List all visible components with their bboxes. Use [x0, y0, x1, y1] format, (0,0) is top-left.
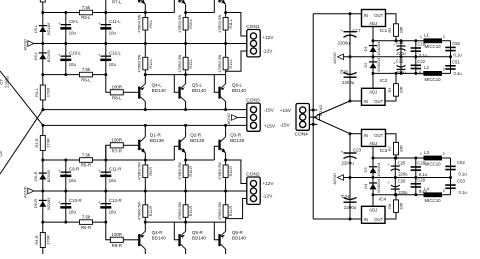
wire output rail 2: [373, 194, 451, 196]
wire IC2 OUT to resistor: [385, 73, 396, 101]
zener diode D6-L BZX85: [39, 52, 47, 53]
svg-text:BD139: BD139: [150, 138, 164, 143]
svg-text:Q6-L: Q6-L: [232, 83, 243, 88]
svg-text:AGND: AGND: [226, 113, 231, 125]
svg-text:C51: C51: [452, 59, 460, 64]
wire rail B L: [43, 74, 106, 76]
svg-text:R8-R: R8-R: [112, 243, 122, 248]
resistor R12-R 470R/0.5W: [144, 191, 146, 222]
capacitor C10-R 10u: [65, 191, 67, 222]
svg-text:CON2: CON2: [246, 171, 260, 177]
resistor R4-R 170R: [40, 233, 45, 248]
capacitor C20 2200u: [349, 57, 351, 101]
svg-text:BD140: BD140: [232, 235, 246, 240]
svg-text:IN: IN: [364, 217, 368, 222]
svg-text:2: 2: [443, 152, 445, 156]
diode D2 1N4004: [372, 57, 374, 74]
wire Q6-R base: [214, 222, 218, 240]
inductor L1 MICC10: [424, 38, 443, 43]
capacitor C24 2200u: [349, 178, 351, 220]
svg-text:Q5-R: Q5-R: [192, 230, 204, 235]
capacitor C29 0.1u: [415, 178, 417, 195]
svg-text:C20: C20: [340, 70, 349, 75]
svg-text:R5: R5: [388, 28, 392, 33]
svg-text:7.5k: 7.5k: [82, 215, 91, 220]
svg-text:AGND: AGND: [332, 173, 337, 185]
transistor Q4-R BD140: [144, 222, 146, 231]
svg-text:C7: C7: [0, 79, 4, 85]
svg-text:BD139: BD139: [190, 138, 204, 143]
svg-text:MICC10: MICC10: [425, 77, 442, 82]
transistor Q6-L BD140: [225, 75, 227, 84]
svg-text:OUT: OUT: [374, 217, 383, 222]
wire CON2 pin1: [226, 160, 247, 184]
wire Q6-L base: [214, 75, 218, 93]
svg-text:D5-R: D5-R: [33, 172, 38, 181]
transistor Q3-L BD139 (cut): [218, 0, 220, 2]
wire output column: [450, 158, 452, 195]
capacitor C25 220u: [394, 158, 396, 178]
svg-text:0.1u: 0.1u: [454, 52, 463, 57]
wire output rail 1 L3: [373, 157, 451, 159]
resistor R9-L 470R/0.5W: [144, 13, 146, 44]
svg-text:C22: C22: [417, 59, 425, 64]
resistor R3-R 170R: [40, 136, 45, 151]
resistor R8-L 100R: [106, 75, 111, 93]
svg-text:C9-R: C9-R: [69, 167, 79, 172]
svg-text:2200u: 2200u: [342, 160, 355, 165]
connector CON4: [296, 104, 309, 131]
svg-text:470R/0.5W: 470R/0.5W: [138, 54, 142, 73]
capacitor C52 0.1u: [445, 166, 455, 168]
svg-text:Q5-L: Q5-L: [192, 83, 203, 88]
svg-text:170R: 170R: [45, 138, 50, 148]
svg-text:470R/0.5W: 470R/0.5W: [178, 201, 182, 220]
voltage regulator IC1: [362, 10, 386, 27]
svg-text:470R/0.5W: 470R/0.5W: [178, 14, 182, 33]
svg-text:D6-L: D6-L: [33, 51, 38, 60]
svg-text:AGND: AGND: [22, 39, 27, 51]
wire emitter rail L: [145, 74, 225, 76]
transistor Q3-R BD139: [218, 140, 220, 150]
svg-text:R11-L: R11-L: [229, 19, 233, 29]
wire zener column L: [42, 0, 44, 110]
svg-text:C11-R: C11-R: [109, 167, 121, 172]
resistor R5-L 7.5k: [80, 10, 93, 15]
svg-text:BD139: BD139: [230, 138, 244, 143]
voltage regulator IC3: [362, 129, 386, 146]
capacitor C18 220u: [400, 41, 402, 57]
wire CON1 pin3: [226, 51, 247, 71]
svg-text:1: 1: [420, 35, 422, 39]
svg-text:BD140: BD140: [152, 235, 166, 240]
svg-text:D5-L: D5-L: [33, 24, 38, 33]
svg-text:R6-L: R6-L: [81, 77, 91, 82]
svg-text:CON3: CON3: [246, 98, 260, 104]
resistor R13-R 470R/0.5W: [185, 191, 187, 222]
svg-text:R4: R4: [388, 88, 392, 93]
svg-text:1: 1: [420, 189, 422, 193]
svg-text:100R: 100R: [112, 232, 123, 237]
capacitor C10-L 10u: [65, 44, 67, 75]
svg-text:MICC10: MICC10: [425, 161, 442, 166]
svg-text:R13-L: R13-L: [189, 59, 193, 69]
svg-text:100R: 100R: [112, 85, 123, 90]
svg-text:1: 1: [420, 67, 422, 71]
svg-text:R7-R: R7-R: [112, 148, 122, 153]
diode D4 1N4004: [372, 178, 374, 195]
wire Q5-R base: [174, 222, 178, 240]
inductor L4 MICC10: [424, 192, 443, 197]
wire output rail 1 L1: [373, 40, 451, 42]
wire raw rail to IC3: [350, 133, 362, 135]
wire CON2 pin3: [226, 199, 247, 219]
svg-text:ADJ: ADJ: [369, 21, 377, 26]
voltage regulator IC2: [362, 88, 386, 105]
svg-text:R7-L: R7-L: [112, 0, 122, 5]
svg-text:BZX85: BZX85: [46, 49, 51, 62]
wire raw supply vertical: [312, 14, 314, 219]
svg-text:10u: 10u: [109, 178, 117, 183]
svg-text:-15V: -15V: [264, 107, 275, 113]
svg-text:10u: 10u: [69, 210, 77, 215]
wire IC3 ADJ: [372, 146, 374, 158]
svg-text:2: 2: [443, 35, 445, 39]
svg-text:R3-R: R3-R: [34, 138, 39, 147]
wire CON4 pins: [309, 109, 317, 111]
svg-text:R9-L: R9-L: [149, 20, 153, 28]
svg-text:IC2: IC2: [380, 78, 388, 83]
svg-text:7.5k: 7.5k: [82, 153, 91, 158]
wire raw rail to IC2: [350, 100, 362, 102]
svg-text:Q3-R: Q3-R: [230, 133, 242, 138]
svg-text:C29: C29: [417, 177, 425, 182]
svg-text:R6-R: R6-R: [81, 225, 91, 230]
svg-text:170R: 170R: [45, 235, 50, 245]
wire CON1 pin1: [226, 13, 247, 37]
svg-text:D2: D2: [363, 62, 368, 68]
svg-text:C52: C52: [457, 160, 465, 165]
svg-text:MICC10: MICC10: [425, 44, 442, 49]
svg-text:470R/0.5W: 470R/0.5W: [138, 14, 142, 33]
wire base jumper line R: [43, 159, 175, 161]
svg-text:470R/0.5W: 470R/0.5W: [218, 162, 222, 181]
transistor Q1-L BD139 (cut): [138, 0, 140, 2]
svg-text:10u: 10u: [69, 31, 77, 36]
svg-text:2: 2: [443, 189, 445, 193]
svg-text:R9-R: R9-R: [149, 167, 153, 176]
svg-text:D1: D1: [363, 45, 368, 51]
wire IC1 OUT to resistor: [386, 14, 397, 41]
svg-text:C12-R: C12-R: [109, 198, 122, 203]
svg-text:-15V: -15V: [280, 122, 291, 128]
wire base jumper line L: [43, 12, 175, 14]
svg-text:10u: 10u: [109, 62, 117, 67]
svg-text:BZX85: BZX85: [46, 169, 51, 182]
svg-text:R12-R: R12-R: [149, 205, 153, 216]
svg-text:R5-L: R5-L: [81, 15, 91, 20]
wire supply rail 1: [43, 109, 247, 111]
svg-text:10u: 10u: [109, 210, 117, 215]
transistor Q4-L BD140: [144, 75, 146, 84]
svg-text:ADJ: ADJ: [369, 141, 377, 146]
wire zener column R: [42, 125, 44, 254]
svg-text:ADJ: ADJ: [369, 90, 377, 95]
svg-text:R11-R: R11-R: [229, 166, 233, 177]
ground AGND at CON3: [232, 115, 238, 121]
wire diagonal to IC2 IN: [317, 101, 350, 115]
ground AGND at rail A L: [28, 41, 34, 47]
svg-text:BD140: BD140: [232, 88, 246, 93]
svg-text:BD140: BD140: [152, 88, 166, 93]
svg-text:220u: 220u: [398, 171, 408, 176]
svg-text:OUT: OUT: [374, 133, 383, 138]
svg-text:C18: C18: [396, 40, 404, 45]
svg-text:R8-L: R8-L: [112, 95, 122, 100]
transistor Q2-L BD139 (cut): [178, 0, 180, 2]
svg-text:0.1u: 0.1u: [459, 190, 468, 195]
svg-text:+12V: +12V: [262, 35, 274, 41]
wire IC4 OUT to resistor: [385, 195, 396, 219]
capacitor C11-L 10u: [105, 0, 107, 44]
wire diagonal feed 2: [0, 110, 43, 174]
svg-text:ADJ: ADJ: [369, 208, 377, 213]
wire raw rail to IC4: [313, 218, 361, 220]
svg-text:C8: C8: [0, 151, 3, 157]
svg-text:R4-R: R4-R: [34, 235, 39, 244]
wire Q5-L base: [174, 75, 178, 93]
svg-text:7.5k: 7.5k: [82, 5, 91, 10]
wire IC1 ADJ: [372, 27, 374, 41]
svg-text:R10-L: R10-L: [189, 19, 193, 29]
wire output rail 2: [373, 72, 451, 74]
svg-text:33R: 33R: [400, 86, 404, 93]
resistor R8 33R: [394, 200, 399, 213]
svg-text:R12-L: R12-L: [149, 59, 153, 69]
svg-text:CON4: CON4: [295, 132, 309, 138]
resistor R7-R 100R: [106, 145, 111, 160]
resistor R9-R 470R/0.5W: [144, 160, 146, 191]
resistor R8-R 100R: [106, 222, 111, 240]
resistor R5-R 7.5k: [80, 158, 93, 163]
transistor Q5-R BD140: [185, 222, 187, 231]
svg-text:10u: 10u: [109, 31, 117, 36]
svg-text:L2: L2: [424, 65, 429, 70]
capacitor C12-R 10u: [105, 191, 107, 222]
svg-text:R4-L: R4-L: [34, 87, 39, 96]
capacitor C28 0.1u: [415, 158, 417, 178]
wire AGND rail L: [34, 43, 247, 45]
svg-text:1N4004: 1N4004: [376, 57, 381, 72]
svg-text:+12V: +12V: [262, 181, 274, 187]
ground AGND rail: [344, 177, 451, 179]
svg-text:470R/0.5W: 470R/0.5W: [178, 162, 182, 181]
svg-text:470R/0.5W: 470R/0.5W: [138, 201, 142, 220]
resistor R11-R 470R/0.5W: [225, 160, 227, 191]
capacitor C26 220u: [394, 178, 396, 195]
connector CON1: [247, 30, 260, 57]
svg-text:C50: C50: [452, 41, 460, 46]
svg-text:33R: 33R: [400, 26, 404, 33]
ground AGND rail: [344, 56, 451, 58]
svg-text:OUT: OUT: [374, 13, 383, 18]
connector CON3: [247, 103, 260, 131]
svg-text:BD140: BD140: [192, 235, 206, 240]
svg-text:2200u: 2200u: [338, 41, 351, 46]
wire rail B R: [43, 221, 106, 223]
svg-text:1N4004: 1N4004: [376, 178, 381, 193]
svg-text:C26: C26: [398, 178, 406, 183]
svg-text:R8: R8: [388, 204, 392, 209]
transistor Q2-R BD139: [178, 140, 180, 150]
capacitor C9-R 10u: [65, 160, 67, 191]
svg-text:C17: C17: [353, 28, 362, 33]
diode D3 1N4004: [372, 158, 374, 178]
resistor R14-L 470R/0.5W: [225, 44, 227, 75]
wire raw rail to IC1: [313, 13, 361, 15]
transistor Q1-R BD139: [138, 140, 140, 150]
capacitor C17 2200u: [349, 14, 351, 57]
svg-text:C21: C21: [396, 59, 404, 64]
resistor R3-L (cut off at top): [40, 0, 45, 2]
svg-text:C12-L: C12-L: [109, 51, 122, 56]
svg-text:C24: C24: [342, 194, 351, 199]
svg-text:10u: 10u: [69, 178, 77, 183]
capacitor C11-R 10u: [105, 145, 107, 191]
svg-text:1N4004: 1N4004: [376, 41, 381, 56]
resistor R4-L 170R: [40, 85, 45, 100]
capacitor C19 0.1u: [415, 41, 417, 57]
svg-text:IC1: IC1: [380, 28, 388, 33]
resistor R10-L 470R/0.5W: [185, 13, 187, 44]
resistor R7 33R: [394, 142, 399, 155]
capacitor C21 220u: [400, 57, 402, 74]
svg-text:470R/0.5W: 470R/0.5W: [218, 201, 222, 220]
transistor Q6-R BD140: [225, 222, 227, 231]
svg-text:IN: IN: [364, 133, 368, 138]
svg-text:-12V: -12V: [262, 48, 273, 54]
svg-text:BD140: BD140: [192, 88, 206, 93]
resistor R14-R 470R/0.5W: [225, 191, 227, 222]
svg-text:L3: L3: [424, 150, 429, 155]
svg-text:L4: L4: [424, 187, 429, 192]
ground AGND at rail A R: [28, 188, 34, 194]
svg-text:IC3: IC3: [380, 148, 388, 153]
capacitor C53 0.1u: [445, 184, 455, 186]
svg-text:L1: L1: [424, 33, 429, 38]
svg-text:Q6-R: Q6-R: [232, 230, 244, 235]
capacitor C12-L 10u: [105, 44, 107, 75]
svg-text:C11-L: C11-L: [109, 19, 121, 24]
svg-text:470R/0.5W: 470R/0.5W: [218, 14, 222, 33]
svg-text:R5-R: R5-R: [81, 163, 91, 168]
svg-text:1N4004: 1N4004: [376, 162, 381, 177]
svg-text:100R: 100R: [112, 138, 123, 143]
svg-text:D3: D3: [363, 167, 368, 173]
resistor R12-L 470R/0.5W: [144, 44, 146, 75]
zener diode D6-R BZX85: [39, 200, 47, 201]
resistor R10-R 470R/0.5W: [185, 160, 187, 191]
svg-text:C10-L: C10-L: [69, 51, 82, 56]
svg-text:C25: C25: [398, 160, 406, 165]
svg-text:Q4-L: Q4-L: [152, 83, 163, 88]
svg-text:7.5k: 7.5k: [82, 67, 91, 72]
svg-text:Q4-R: Q4-R: [152, 230, 164, 235]
svg-text:BZX85: BZX85: [46, 197, 51, 210]
capacitor C50 0.1u: [445, 47, 455, 49]
svg-text:0.1u: 0.1u: [419, 172, 428, 177]
svg-text:D6-R: D6-R: [33, 199, 38, 208]
ground AGND at CON4: [314, 114, 320, 120]
svg-text:CON1: CON1: [246, 24, 260, 30]
svg-text:C10-R: C10-R: [69, 198, 82, 203]
svg-text:+15V: +15V: [264, 123, 276, 129]
svg-text:IC4: IC4: [379, 196, 387, 201]
svg-text:2: 2: [443, 67, 445, 71]
resistor R4 33R: [394, 84, 399, 97]
svg-text:470R/0.5W: 470R/0.5W: [178, 54, 182, 73]
wire IC3 OUT to resistor: [386, 134, 397, 158]
capacitor C51 0.1u: [445, 65, 455, 67]
svg-text:33R: 33R: [400, 202, 404, 209]
resistor R13-L 470R/0.5W: [185, 44, 187, 75]
svg-text:R14-L: R14-L: [229, 59, 233, 69]
svg-text:0.1u: 0.1u: [454, 71, 463, 76]
inductor L2 MICC10: [424, 71, 443, 76]
svg-text:-12V: -12V: [262, 194, 273, 200]
svg-text:170R: 170R: [45, 88, 50, 98]
svg-text:IN: IN: [364, 13, 368, 18]
svg-text:R10-R: R10-R: [189, 166, 193, 177]
transistor Q5-L BD140: [185, 75, 187, 84]
resistor R5 33R: [394, 24, 399, 37]
svg-text:MICC10: MICC10: [425, 198, 442, 203]
inductor L3 MICC10: [424, 156, 443, 161]
svg-text:1: 1: [420, 152, 422, 156]
svg-text:C53: C53: [457, 179, 465, 184]
svg-text:OUT: OUT: [374, 99, 383, 104]
zener diode D5-L BZX85: [39, 25, 47, 26]
diode D1 1N4004: [372, 41, 374, 57]
svg-text:2200u: 2200u: [342, 80, 355, 85]
svg-text:Q2-R: Q2-R: [190, 133, 202, 138]
svg-text:R13-R: R13-R: [189, 205, 193, 216]
svg-text:2200u: 2200u: [5, 76, 10, 88]
svg-text:0.1u: 0.1u: [459, 171, 468, 176]
svg-text:470R/0.5W: 470R/0.5W: [138, 162, 142, 181]
wire emitter rail R: [145, 221, 225, 223]
resistor R6-L 7.5k: [80, 72, 93, 77]
svg-text:R7: R7: [388, 146, 392, 151]
capacitor C9-L 10u: [65, 13, 67, 44]
wire IC2 ADJ: [372, 73, 374, 88]
svg-text:AGND: AGND: [22, 186, 27, 198]
svg-text:C23: C23: [353, 148, 362, 153]
svg-text:IN: IN: [364, 99, 368, 104]
wire IC4 ADJ: [372, 195, 374, 207]
zener diode D5-R BZX85: [39, 173, 47, 174]
wire supply rail 2: [43, 124, 247, 126]
svg-text:R14-R: R14-R: [229, 205, 233, 216]
wire diagonal feed 1: [0, 71, 43, 125]
resistor R6-R 7.5k: [80, 220, 93, 225]
wire AGND rail R: [34, 190, 247, 192]
capacitor C23 2200u: [349, 134, 351, 178]
resistor R11-L 470R/0.5W: [225, 13, 227, 44]
svg-text:BZX85: BZX85: [46, 22, 51, 35]
svg-text:33R: 33R: [400, 145, 404, 152]
wire diagonal to IC3 IN: [317, 119, 350, 134]
